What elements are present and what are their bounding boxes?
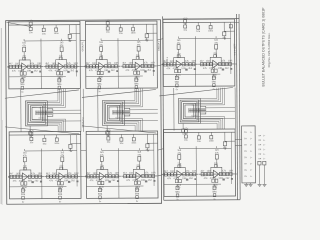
svg-text:100n: 100n xyxy=(131,32,137,34)
svg-text:0v: 0v xyxy=(99,201,102,203)
svg-text:5R6: 5R6 xyxy=(98,194,103,196)
svg-text:22p: 22p xyxy=(136,55,140,57)
svg-text:47k: 47k xyxy=(185,60,190,63)
svg-text:10R: 10R xyxy=(115,172,120,175)
svg-text:1k5: 1k5 xyxy=(60,152,64,154)
svg-text:4k7: 4k7 xyxy=(46,172,51,175)
svg-text:4k7: 4k7 xyxy=(86,172,91,175)
svg-text:22p: 22p xyxy=(137,165,141,167)
svg-text:4k7: 4k7 xyxy=(9,172,14,175)
svg-text:CH: CH xyxy=(244,145,247,147)
svg-text:OP: OP xyxy=(258,149,262,151)
svg-text:1+: 1+ xyxy=(250,176,253,178)
svg-text:0v: 0v xyxy=(182,133,184,135)
svg-text:1k5: 1k5 xyxy=(100,152,104,154)
svg-text:100n: 100n xyxy=(208,31,214,33)
svg-text:22p: 22p xyxy=(177,53,181,55)
svg-text:1+: 1+ xyxy=(263,135,266,137)
svg-text:Y O-P LEFT: Y O-P LEFT xyxy=(234,43,236,56)
svg-text:1k0: 1k0 xyxy=(170,170,175,173)
svg-text:10u: 10u xyxy=(197,141,202,143)
svg-text:47k: 47k xyxy=(67,62,72,65)
svg-text:0v: 0v xyxy=(22,202,25,204)
svg-text:OP: OP xyxy=(258,154,262,156)
svg-text:1k5: 1k5 xyxy=(215,150,219,152)
svg-text:22p: 22p xyxy=(214,163,218,165)
svg-text:1k0: 1k0 xyxy=(15,62,20,65)
svg-text:10u: 10u xyxy=(196,31,201,33)
svg-text:1k5: 1k5 xyxy=(99,42,103,44)
svg-text:4k7: 4k7 xyxy=(122,62,127,65)
svg-text:47k: 47k xyxy=(144,62,149,65)
svg-text:OP: OP xyxy=(258,158,262,160)
svg-text:63v: 63v xyxy=(58,80,62,82)
svg-text:47k: 47k xyxy=(13,180,18,183)
svg-text:10u: 10u xyxy=(107,142,111,144)
svg-text:1k0: 1k0 xyxy=(169,60,174,63)
svg-text:2k2: 2k2 xyxy=(188,67,193,70)
svg-text:47k: 47k xyxy=(125,69,130,72)
svg-text:1k0: 1k0 xyxy=(92,62,97,65)
svg-text:63v: 63v xyxy=(213,77,217,79)
svg-text:1+: 1+ xyxy=(250,157,253,159)
svg-text:47k: 47k xyxy=(31,172,36,175)
svg-text:1k0: 1k0 xyxy=(93,172,98,175)
svg-text:0v: 0v xyxy=(21,92,24,94)
svg-text:1+: 1+ xyxy=(250,144,253,146)
svg-text:5R6: 5R6 xyxy=(212,81,217,83)
svg-text:5R6: 5R6 xyxy=(134,83,139,85)
svg-text:0v: 0v xyxy=(106,135,108,137)
svg-text:1k5: 1k5 xyxy=(177,150,181,152)
svg-text:10u: 10u xyxy=(146,150,151,152)
svg-text:2k2: 2k2 xyxy=(148,179,153,182)
svg-text:1+: 1+ xyxy=(263,140,266,142)
svg-text:0v: 0v xyxy=(136,201,139,203)
svg-text:1+: 1+ xyxy=(250,170,253,172)
svg-text:GROUP 4: GROUP 4 xyxy=(167,56,169,67)
svg-text:1k5: 1k5 xyxy=(22,42,26,44)
svg-text:1k5: 1k5 xyxy=(214,40,218,42)
svg-text:22p: 22p xyxy=(100,165,104,167)
svg-text:22p: 22p xyxy=(60,165,64,167)
svg-text:GROUP 3: GROUP 3 xyxy=(83,117,85,128)
svg-text:100n: 100n xyxy=(209,141,215,143)
svg-text:47k: 47k xyxy=(68,172,73,175)
svg-text:10R: 10R xyxy=(182,177,187,180)
svg-text:10R: 10R xyxy=(104,69,109,72)
svg-text:2k2: 2k2 xyxy=(34,69,39,72)
svg-text:10R: 10R xyxy=(192,170,197,173)
svg-text:22p: 22p xyxy=(23,166,27,168)
svg-text:0v: 0v xyxy=(176,89,179,91)
svg-text:CH: CH xyxy=(244,132,247,134)
svg-text:1k0: 1k0 xyxy=(52,172,57,175)
svg-text:1k0: 1k0 xyxy=(128,62,133,65)
svg-text:1+: 1+ xyxy=(250,163,253,165)
svg-text:63v: 63v xyxy=(136,189,140,191)
svg-text:47k: 47k xyxy=(126,179,131,182)
svg-text:4k7: 4k7 xyxy=(123,172,128,175)
svg-text:5R6: 5R6 xyxy=(21,194,26,196)
svg-text:5R6: 5R6 xyxy=(58,194,63,196)
svg-text:22p: 22p xyxy=(213,53,217,55)
svg-text:0v: 0v xyxy=(59,201,62,203)
svg-text:10R: 10R xyxy=(228,59,233,62)
svg-text:47k: 47k xyxy=(145,172,150,175)
svg-text:1+: 1+ xyxy=(263,149,266,151)
svg-text:2k2: 2k2 xyxy=(71,179,76,182)
svg-text:5R6: 5R6 xyxy=(175,192,180,194)
svg-text:4k7: 4k7 xyxy=(200,170,205,173)
svg-text:10R: 10R xyxy=(27,180,32,183)
svg-text:63v: 63v xyxy=(59,190,63,192)
svg-text:4k7: 4k7 xyxy=(164,170,169,173)
svg-text:BULLET BALANCED OUTPUTS (CARD: BULLET BALANCED OUTPUTS (CARD 1) 0801P xyxy=(262,7,266,87)
svg-text:47k: 47k xyxy=(221,60,226,63)
svg-text:10u: 10u xyxy=(184,140,188,142)
svg-text:5R6: 5R6 xyxy=(57,84,62,86)
svg-text:10u: 10u xyxy=(119,143,124,145)
svg-text:1k0: 1k0 xyxy=(51,62,56,65)
svg-text:47k: 47k xyxy=(90,179,95,182)
svg-text:10R: 10R xyxy=(37,62,42,65)
svg-text:1+: 1+ xyxy=(250,132,253,134)
svg-text:47k: 47k xyxy=(12,70,17,73)
svg-text:47k: 47k xyxy=(30,62,35,65)
svg-text:OP: OP xyxy=(258,140,262,142)
svg-text:CH: CH xyxy=(244,157,247,159)
svg-text:GROUP 1: GROUP 1 xyxy=(82,41,84,52)
svg-text:10u: 10u xyxy=(145,40,150,42)
svg-text:1+: 1+ xyxy=(250,151,253,153)
svg-text:47k: 47k xyxy=(222,170,227,173)
svg-text:0v: 0v xyxy=(98,91,101,93)
svg-text:63v: 63v xyxy=(135,79,139,81)
svg-text:CH: CH xyxy=(244,138,247,140)
svg-text:CH: CH xyxy=(244,170,247,172)
svg-text:47k: 47k xyxy=(49,179,54,182)
svg-text:OP: OP xyxy=(258,135,262,137)
svg-text:10u: 10u xyxy=(222,38,227,40)
svg-text:10R: 10R xyxy=(63,69,68,72)
svg-text:0v: 0v xyxy=(29,136,31,138)
svg-text:5R6: 5R6 xyxy=(135,193,140,195)
svg-text:2k2: 2k2 xyxy=(111,179,116,182)
svg-text:1+: 1+ xyxy=(263,144,266,146)
svg-text:2k2: 2k2 xyxy=(189,177,194,180)
svg-text:47k: 47k xyxy=(167,177,172,180)
svg-text:47k: 47k xyxy=(48,69,53,72)
svg-text:10u: 10u xyxy=(223,148,228,150)
svg-text:CH: CH xyxy=(244,176,247,178)
svg-text:10R: 10R xyxy=(191,60,196,63)
svg-text:1k0: 1k0 xyxy=(206,60,211,63)
svg-text:2k2: 2k2 xyxy=(225,177,230,180)
svg-text:2k2: 2k2 xyxy=(147,69,152,72)
svg-text:10R: 10R xyxy=(141,179,146,182)
svg-text:2k2: 2k2 xyxy=(34,179,39,182)
svg-text:47k: 47k xyxy=(107,62,112,65)
svg-text:10u: 10u xyxy=(30,142,34,144)
svg-text:63v: 63v xyxy=(213,187,217,189)
svg-text:Drg No. 026-S-0802 Rev.: Drg No. 026-S-0802 Rev. xyxy=(267,33,271,68)
svg-text:GROUP 2: GROUP 2 xyxy=(159,40,161,51)
svg-text:5R6: 5R6 xyxy=(97,84,102,86)
svg-text:10u: 10u xyxy=(68,40,73,42)
svg-text:47k: 47k xyxy=(108,172,113,175)
svg-text:47k: 47k xyxy=(204,177,209,180)
svg-text:10u: 10u xyxy=(183,30,187,32)
svg-text:10R: 10R xyxy=(38,172,43,175)
svg-text:2k2: 2k2 xyxy=(70,69,75,72)
svg-text:1k5: 1k5 xyxy=(137,42,141,44)
svg-text:10R: 10R xyxy=(140,69,145,72)
svg-text:22p: 22p xyxy=(22,56,26,58)
svg-text:100n: 100n xyxy=(131,142,137,144)
svg-text:22p: 22p xyxy=(59,55,63,57)
svg-text:1k0: 1k0 xyxy=(16,172,21,175)
svg-text:22p: 22p xyxy=(178,163,182,165)
svg-text:1k5: 1k5 xyxy=(60,42,64,44)
svg-text:10u: 10u xyxy=(119,33,124,35)
svg-text:10R: 10R xyxy=(74,172,79,175)
svg-text:47k: 47k xyxy=(203,67,208,70)
svg-text:1k5: 1k5 xyxy=(177,40,181,42)
svg-text:10R: 10R xyxy=(229,169,234,172)
svg-text:5R6: 5R6 xyxy=(20,84,25,86)
svg-text:10u: 10u xyxy=(69,150,74,152)
svg-text:2k2: 2k2 xyxy=(225,67,230,70)
svg-text:5R6: 5R6 xyxy=(175,82,180,84)
svg-text:4k7: 4k7 xyxy=(86,62,91,65)
svg-text:1+: 1+ xyxy=(263,154,266,156)
svg-text:10R: 10R xyxy=(114,62,119,65)
svg-text:1k5: 1k5 xyxy=(23,152,27,154)
svg-text:10R: 10R xyxy=(104,179,109,182)
svg-text:4k7: 4k7 xyxy=(9,62,14,65)
svg-text:1k5: 1k5 xyxy=(137,152,141,154)
svg-text:5R6: 5R6 xyxy=(212,191,217,193)
svg-text:10R: 10R xyxy=(73,62,78,65)
svg-text:47k: 47k xyxy=(89,69,94,72)
svg-text:10R: 10R xyxy=(218,177,223,180)
svg-text:10R: 10R xyxy=(150,61,155,64)
svg-text:1+: 1+ xyxy=(250,138,253,140)
svg-text:100n: 100n xyxy=(54,143,60,145)
svg-text:2k2: 2k2 xyxy=(111,69,116,72)
svg-text:10R: 10R xyxy=(151,171,156,174)
svg-text:47k: 47k xyxy=(186,170,191,173)
svg-text:OP: OP xyxy=(258,145,262,147)
svg-text:22p: 22p xyxy=(99,55,103,57)
svg-text:10u: 10u xyxy=(29,32,33,34)
svg-text:10R: 10R xyxy=(27,70,32,73)
svg-text:10R: 10R xyxy=(218,67,223,70)
svg-text:1+: 1+ xyxy=(263,158,266,160)
svg-text:10u: 10u xyxy=(42,33,47,35)
svg-text:10u: 10u xyxy=(106,32,110,34)
svg-text:10R: 10R xyxy=(181,67,186,70)
svg-text:CH: CH xyxy=(244,163,247,165)
svg-text:1k0: 1k0 xyxy=(129,172,134,175)
svg-text:100n: 100n xyxy=(54,33,60,35)
svg-text:4k7: 4k7 xyxy=(45,62,50,65)
svg-text:1k0: 1k0 xyxy=(207,170,212,173)
svg-text:CH: CH xyxy=(244,151,247,153)
svg-text:10u: 10u xyxy=(42,143,47,145)
svg-text:10R: 10R xyxy=(64,179,69,182)
svg-text:4k7: 4k7 xyxy=(200,60,205,63)
